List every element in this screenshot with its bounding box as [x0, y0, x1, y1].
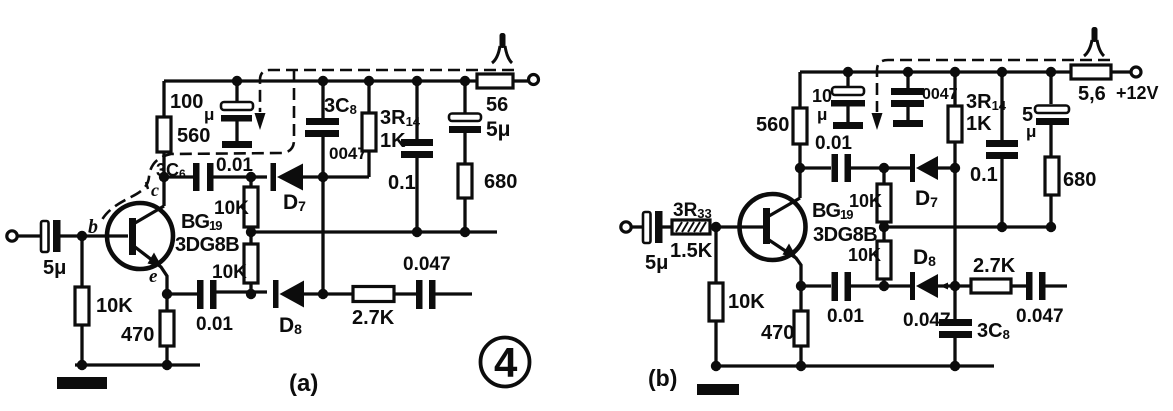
capacitor 0.1 (a)	[388, 81, 433, 232]
resistor 3R14 1K (b)	[948, 72, 1007, 167]
diode D8 (a)	[273, 280, 353, 337]
svg-text:BG19: BG19	[812, 200, 853, 222]
diode D7 (a)	[271, 163, 370, 214]
svg-text:3R14: 3R14	[380, 107, 421, 129]
svg-text:2.7K: 2.7K	[973, 255, 1016, 277]
wire C5u to node b	[60, 234, 128, 237]
resistor 2.7K (b)	[971, 255, 1027, 293]
resistor 10K lower (b)	[848, 241, 891, 286]
resistor 10K base (a)	[75, 236, 133, 365]
svg-text:560: 560	[177, 125, 210, 147]
D8 row wire (b)	[801, 284, 831, 287]
D8 row wire (a)	[167, 292, 197, 295]
svg-text:5μ: 5μ	[43, 257, 66, 279]
svg-text:0.01: 0.01	[827, 306, 864, 327]
svg-text:0047: 0047	[922, 86, 958, 103]
capacitor 0.01 emitter (b)	[827, 272, 884, 327]
capacitor 3C6 0.01 (a)	[156, 155, 253, 191]
svg-text:10K: 10K	[848, 245, 881, 265]
svg-text:470: 470	[121, 324, 154, 346]
dashed interference path (a)	[260, 70, 514, 112]
wire input to C5u	[17, 234, 42, 237]
svg-text:560: 560	[756, 114, 789, 136]
resistor 10K upper (a)	[214, 177, 258, 244]
svg-text:D8: D8	[913, 246, 936, 269]
capacitor 5u input (a)	[41, 220, 66, 279]
wire input to C5u (b)	[630, 225, 644, 228]
emitter node (b)	[796, 281, 806, 291]
svg-text:b: b	[88, 216, 98, 238]
node D7 row left (b)	[879, 163, 889, 173]
svg-text:D7: D7	[283, 191, 306, 214]
svg-text:(a): (a)	[289, 370, 318, 397]
emitter node (a)	[162, 289, 172, 299]
svg-text:56: 56	[486, 94, 508, 116]
D7 row wire (b)	[800, 166, 831, 169]
resistor 10K base (b)	[709, 227, 765, 366]
svg-text:10K: 10K	[96, 295, 133, 317]
node D8 row (a)	[246, 289, 256, 299]
capacitor 0.1 (b)	[970, 72, 1018, 227]
node 3C8 line x D8 row (a)	[318, 289, 328, 299]
node b	[77, 231, 87, 241]
pulse symbol (b)	[1084, 27, 1104, 56]
svg-text:5μ: 5μ	[486, 118, 511, 141]
svg-text:0.047: 0.047	[1016, 306, 1064, 327]
node b (b)	[711, 222, 721, 232]
capacitor 5u (a right)	[449, 81, 511, 164]
svg-text:0.01: 0.01	[815, 133, 852, 154]
svg-text:3C6: 3C6	[156, 160, 186, 181]
wire C5u to 3R33 (b)	[662, 225, 672, 228]
svg-text:(b): (b)	[648, 365, 677, 391]
node central x D8 (b)	[950, 281, 960, 291]
node D8 row (b)	[879, 281, 889, 291]
ground rail (b)	[716, 364, 994, 367]
svg-text:0.047: 0.047	[403, 254, 451, 275]
svg-text:680: 680	[1063, 169, 1096, 191]
svg-text:D8: D8	[279, 314, 302, 337]
resistor 56 (a)	[477, 74, 528, 116]
resistor 3R33 1.5K (b)	[670, 200, 713, 262]
capacitor 100u (a)	[170, 81, 253, 148]
svg-text:10K: 10K	[212, 262, 247, 283]
dashed branch to collector (a)	[100, 70, 294, 224]
svg-text:0.1: 0.1	[970, 164, 998, 186]
svg-text:10K: 10K	[214, 198, 249, 219]
top rail (b)	[800, 70, 1072, 73]
output terminal (a)	[529, 75, 539, 85]
pulse symbol (a)	[492, 33, 512, 63]
svg-text:0.01: 0.01	[196, 314, 233, 335]
resistor 3R14 1K (a)	[362, 81, 421, 177]
svg-text:100: 100	[170, 91, 203, 113]
capacitor 0.047 top (b)	[891, 72, 958, 127]
node midpoint (b)	[879, 222, 889, 232]
svg-text:10K: 10K	[728, 291, 765, 313]
diode D7 (b)	[910, 154, 955, 210]
dashed arrow (a)	[255, 113, 266, 130]
dashed arrow (b)	[872, 113, 883, 130]
capacitor 0.047 (a)	[403, 254, 472, 309]
wire 3R33 to base (b)	[710, 225, 764, 228]
resistor 10K lower (a)	[212, 244, 258, 294]
resistor 680 (b)	[1045, 157, 1096, 227]
svg-text:c: c	[151, 180, 159, 200]
svg-text:0.1: 0.1	[388, 172, 416, 194]
svg-text:0.047: 0.047	[903, 310, 951, 331]
resistor 680 (a)	[458, 164, 517, 232]
svg-text:4: 4	[494, 339, 518, 386]
diode D8 (b)	[910, 246, 971, 300]
central vertical wire 3C8 line (a)	[321, 137, 324, 294]
svg-text:3C8: 3C8	[977, 320, 1010, 342]
svg-text:5μ: 5μ	[645, 252, 668, 274]
dashed interference path (b)	[877, 60, 1110, 112]
ground symbol (a)	[57, 377, 107, 389]
node 1K bottom (b)	[950, 163, 960, 173]
svg-text:D7: D7	[915, 187, 938, 210]
collector node (a)	[159, 172, 169, 182]
feedback rail (a)	[251, 230, 497, 233]
resistor 470 (a)	[121, 294, 174, 365]
node midpoint (a)	[246, 227, 256, 237]
svg-text:5,6: 5,6	[1078, 83, 1106, 105]
resistor 5.6 (b)	[1071, 65, 1131, 105]
svg-text:μ: μ	[817, 105, 827, 124]
svg-text:1K: 1K	[966, 113, 992, 135]
svg-text:μ: μ	[1026, 122, 1036, 141]
capacitor 3C8 0.047 (b)	[903, 310, 1010, 366]
capacitor 0.047 out (b)	[1016, 272, 1067, 327]
svg-text:470: 470	[761, 322, 794, 344]
resistor 470 (b)	[761, 286, 808, 366]
svg-text:10: 10	[812, 86, 832, 106]
transistor U2 BG19 (b)	[740, 168, 806, 286]
resistor 560 (b)	[756, 72, 807, 168]
node D7 row left (a)	[246, 172, 256, 182]
central vertical (b)	[953, 168, 956, 320]
collector node (b)	[795, 163, 805, 173]
svg-text:10K: 10K	[849, 191, 882, 211]
feedback rail (b)	[884, 225, 1051, 228]
svg-text:3DG8B: 3DG8B	[813, 224, 877, 246]
resistor 2.7K (a)	[352, 287, 417, 330]
D7 row wire (a)	[164, 175, 194, 178]
svg-text:3R33: 3R33	[673, 200, 712, 221]
top rail (a)	[164, 79, 478, 82]
svg-text:+12V: +12V	[1116, 83, 1159, 103]
+12V terminal (b)	[1131, 67, 1141, 77]
svg-text:μ: μ	[204, 105, 214, 124]
capacitor 0.01 collector (b)	[815, 133, 884, 182]
svg-text:3C8: 3C8	[324, 95, 357, 117]
figure number 4	[481, 338, 530, 387]
capacitor 5u (b right)	[1022, 72, 1069, 157]
ground symbol (b)	[697, 384, 739, 395]
node 3C8 line x D7 row (a)	[318, 172, 328, 182]
capacitor 10u (b)	[812, 72, 865, 129]
resistor 10K upper (b)	[849, 168, 891, 241]
svg-text:2.7K: 2.7K	[352, 307, 395, 329]
svg-text:0.01: 0.01	[216, 155, 253, 176]
svg-text:1.5K: 1.5K	[670, 240, 713, 262]
svg-text:680: 680	[484, 171, 517, 193]
capacitor 5u input (b)	[643, 211, 668, 274]
input terminal (a)	[7, 231, 17, 241]
input terminal (b)	[621, 222, 631, 232]
resistor 560 (a)	[157, 81, 210, 177]
ground rail (a)	[75, 363, 200, 366]
svg-text:3DG8B: 3DG8B	[175, 234, 239, 256]
capacitor 3C8 0.047 (a)	[305, 81, 367, 163]
capacitor 0.01 emitter (a)	[196, 280, 267, 335]
transistor U1 BG19 (a)	[107, 177, 173, 294]
svg-text:e: e	[149, 266, 158, 287]
